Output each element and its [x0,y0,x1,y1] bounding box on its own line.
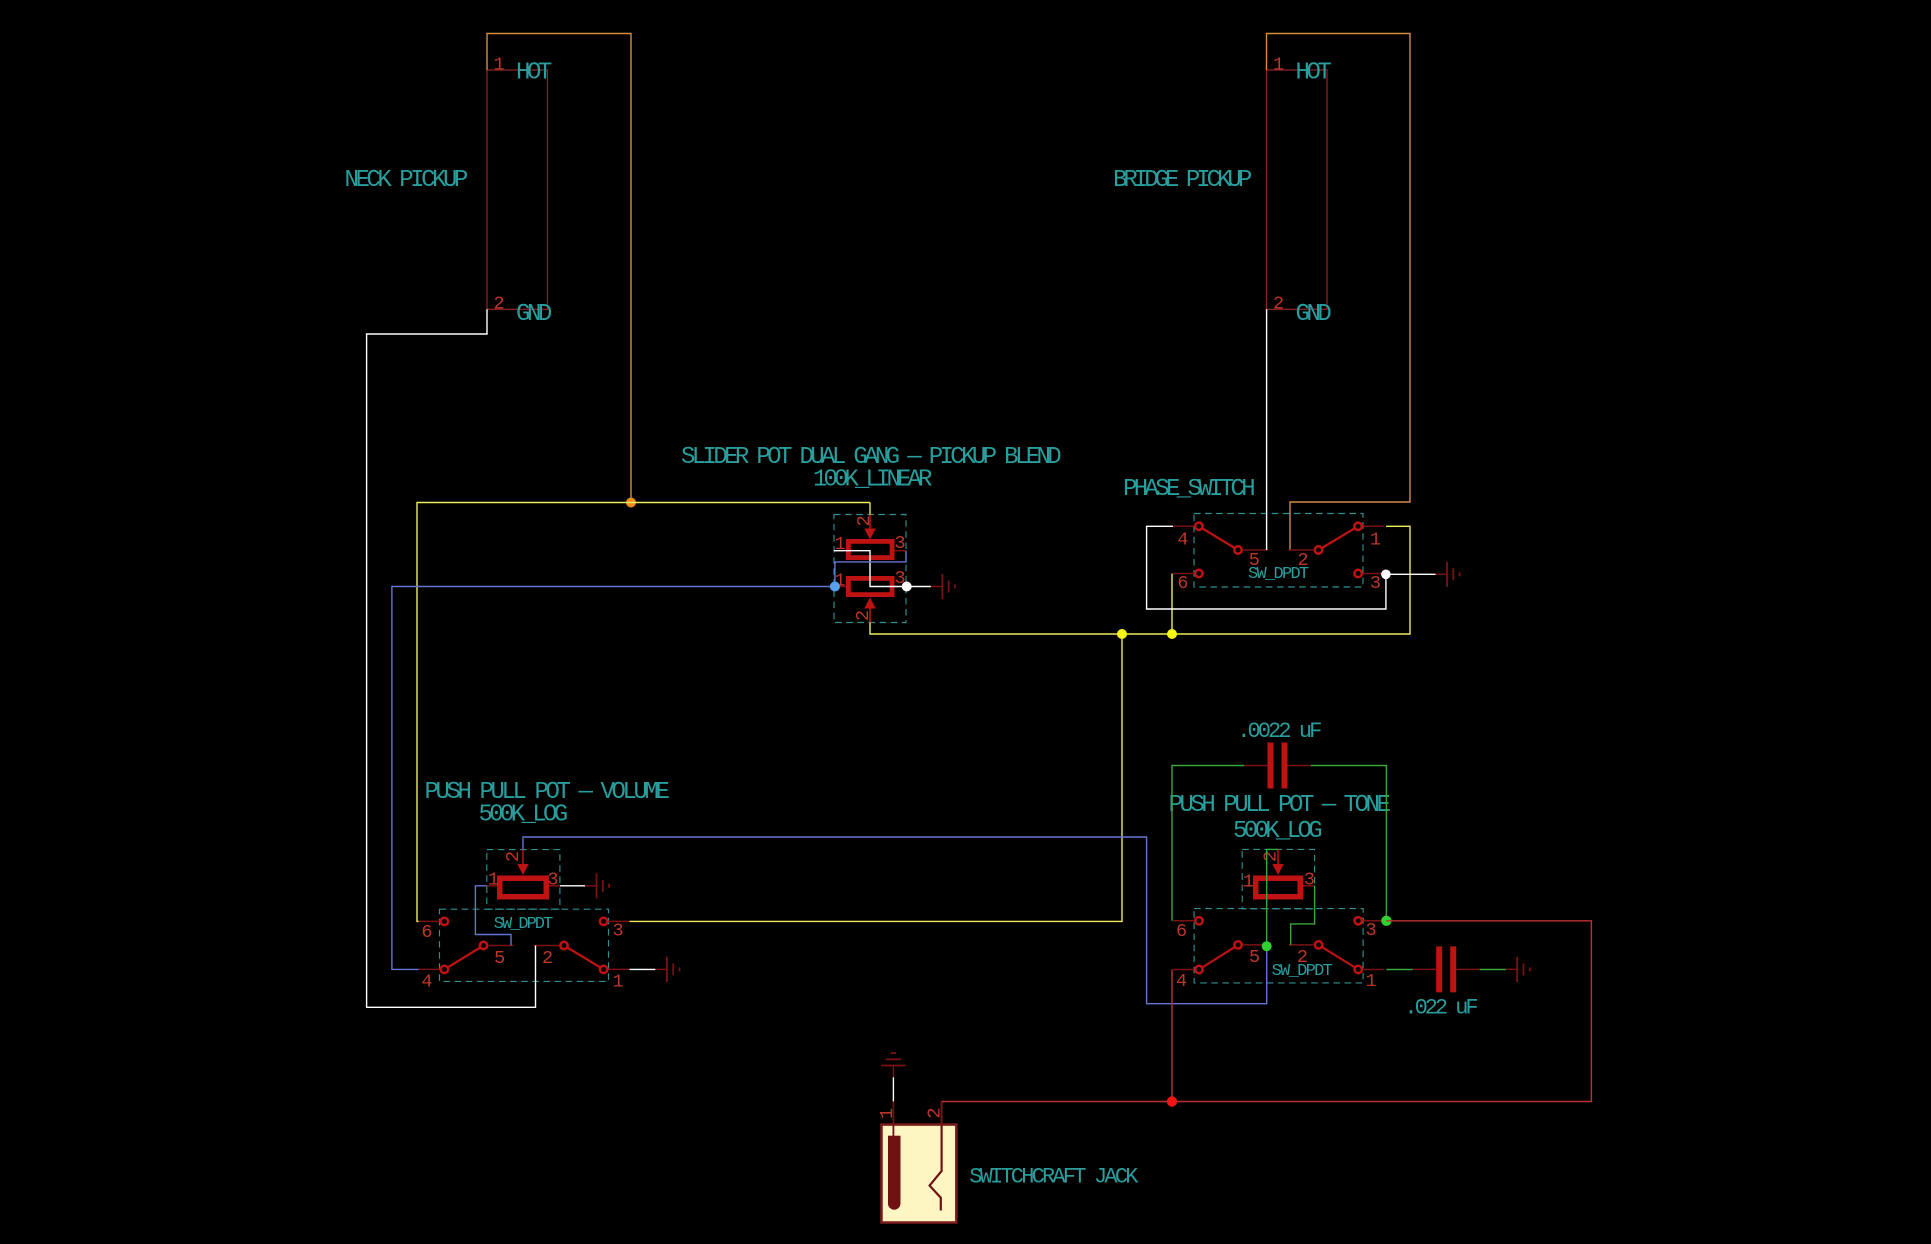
svg-text:5: 5 [1249,947,1260,968]
svg-text:HOT: HOT [516,60,552,87]
svg-text:GND: GND [516,301,552,328]
svg-text:1: 1 [834,534,845,555]
svg-text:3: 3 [1365,920,1376,941]
svg-text:100K_LINEAR: 100K_LINEAR [813,467,932,494]
svg-text:3: 3 [1304,870,1315,891]
svg-text:.0022 uF: .0022 uF [1237,719,1321,744]
svg-text:3: 3 [612,921,623,942]
svg-text:2: 2 [503,851,524,862]
svg-text:4: 4 [1176,971,1187,992]
svg-text:2: 2 [1297,550,1308,571]
svg-text:2: 2 [854,515,875,526]
svg-text:6: 6 [1177,573,1188,594]
svg-text:1: 1 [488,870,499,891]
svg-text:1: 1 [1370,530,1381,551]
svg-text:HOT: HOT [1296,60,1332,87]
svg-text:.022 uF: .022 uF [1404,995,1477,1020]
svg-text:SW_DPDT: SW_DPDT [494,915,553,934]
svg-text:2: 2 [1297,947,1308,968]
svg-text:2: 2 [1273,294,1284,315]
svg-text:PHASE_SWITCH: PHASE_SWITCH [1123,476,1254,503]
svg-text:6: 6 [1176,921,1187,942]
svg-text:2: 2 [853,610,874,621]
svg-text:5: 5 [1249,550,1260,571]
svg-text:1: 1 [493,55,504,76]
svg-text:GND: GND [1296,301,1332,328]
svg-text:2: 2 [493,294,504,315]
svg-text:500K_LOG: 500K_LOG [1233,818,1321,845]
svg-text:2: 2 [542,948,553,969]
svg-text:PUSH PULL POT — TONE: PUSH PULL POT — TONE [1169,792,1391,819]
svg-text:3: 3 [894,533,905,554]
svg-text:2: 2 [925,1107,946,1118]
svg-text:3: 3 [547,870,558,891]
svg-text:500K_LOG: 500K_LOG [479,802,567,829]
svg-text:BRIDGE PICKUP: BRIDGE PICKUP [1113,167,1252,194]
svg-text:1: 1 [612,972,623,993]
svg-text:2: 2 [1261,851,1282,862]
svg-text:1: 1 [1243,872,1254,893]
svg-text:6: 6 [421,922,432,943]
svg-text:1: 1 [1273,55,1284,76]
svg-text:5: 5 [494,948,505,969]
svg-text:SWITCHCRAFT JACK: SWITCHCRAFT JACK [969,1165,1139,1190]
svg-text:1: 1 [1365,971,1376,992]
svg-text:1: 1 [877,1108,898,1119]
svg-text:4: 4 [421,972,432,993]
svg-text:3: 3 [1370,573,1381,594]
svg-text:4: 4 [1177,530,1188,551]
svg-text:NECK PICKUP: NECK PICKUP [345,167,468,194]
